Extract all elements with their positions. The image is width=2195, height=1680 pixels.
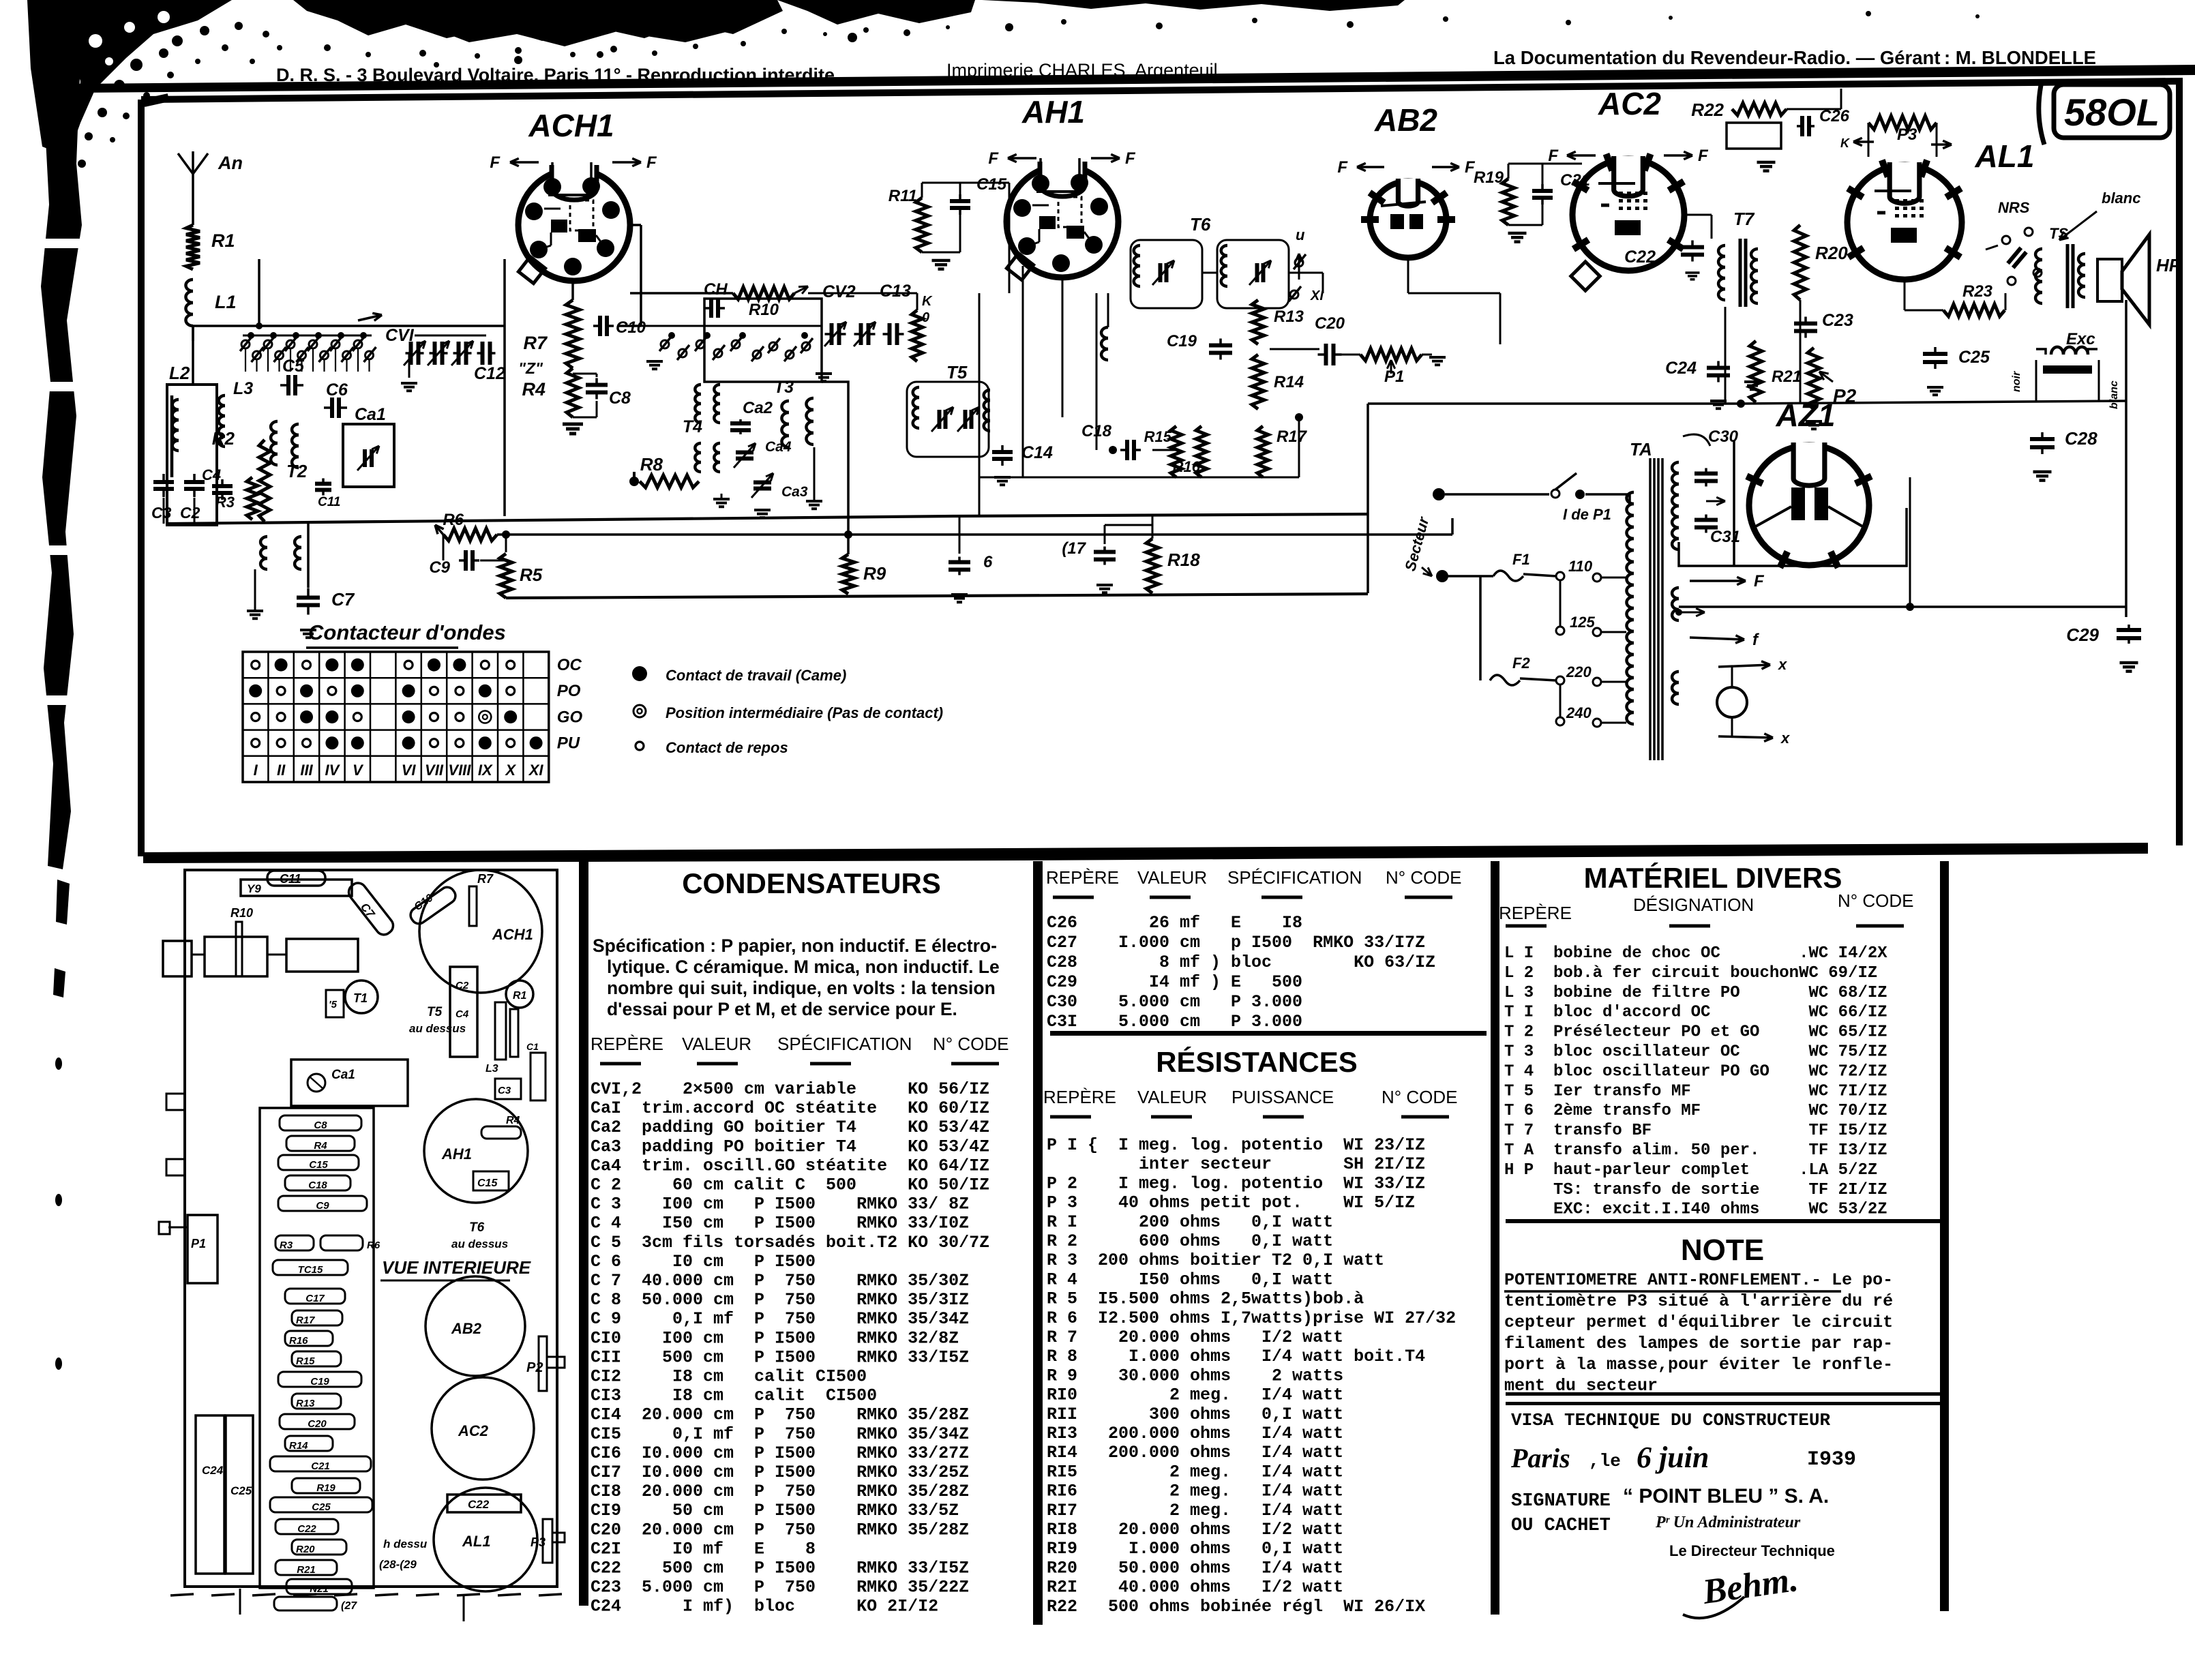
svg-text:I: I [254,762,258,779]
svg-text:T1: T1 [353,991,368,1005]
svg-text:C26 26 mf E I8: C26 26 mf E I8 [1047,913,1302,933]
svg-text:RÉSISTANCES: RÉSISTANCES [1156,1046,1358,1078]
svg-text:C28 8 mf ) bloc: C28 8 mf ) bloc KO 63/IZ [1047,952,1435,972]
capacitor C25 [1923,352,1947,356]
svg-text:SPÉCIFICATION: SPÉCIFICATION [777,1034,912,1054]
svg-text:P 3 40 ohms petit pot. W: P 3 40 ohms petit pot. WI 5/IZ [1047,1193,1415,1213]
transformer T3 coils [781,401,789,412]
small box (5 [326,990,344,1017]
svg-text:N° CODE: N° CODE [933,1034,1009,1054]
resistor R11 [916,198,928,252]
svg-text:XI: XI [528,762,544,779]
loudspeaker HP [2097,259,2122,301]
coil under AH1 [1101,327,1108,338]
svg-text:C 3 I00 cm P I500 RMKO: C 3 I00 cm P I500 RMKO 33/ 8Z [591,1195,969,1214]
svg-text:C24: C24 [1665,359,1697,378]
svg-text:R16: R16 [289,1335,308,1347]
capacitor C20 [1324,344,1328,365]
svg-text:R15: R15 [296,1355,315,1367]
svg-text:OU CACHET: OU CACHET [1511,1516,1611,1536]
svg-text:F: F [1754,572,1765,590]
svg-text:R21: R21 [1772,367,1802,386]
svg-text:RI9 I.000 ohms 0,I watt: RI9 I.000 ohms 0,I watt [1047,1539,1343,1559]
capacitor C13 [888,323,892,345]
svg-text:C28: C28 [2065,428,2097,449]
svg-text:C21: C21 [311,1460,330,1472]
tube ACH1 [518,169,630,281]
resistor R19 [1502,179,1514,225]
wave-change switch contacts left bank [241,340,250,348]
resistor R18 [1146,539,1159,593]
svg-text:VI: VI [402,762,417,779]
trimmer Ca1 box [291,1060,408,1106]
svg-text:Contact de repos: Contact de repos [666,739,788,756]
capacitor C29 [2117,628,2141,632]
svg-text:C22: C22 [1624,247,1656,267]
svg-text:C9: C9 [316,1200,329,1212]
svg-text:AC2: AC2 [458,1422,489,1439]
svg-text:au dessus: au dessus [451,1237,508,1250]
svg-text:R6: R6 [443,511,464,529]
svg-text:T7: T7 [1733,209,1755,229]
svg-text:110: 110 [1568,558,1593,575]
resistor R6 [443,528,497,541]
svg-text:An: An [218,153,243,173]
svg-text:R4: R4 [506,1115,520,1126]
transformer T2 coils [271,421,278,432]
ground under cluster [247,610,263,612]
svg-text:L I bobine de choc OC: L I bobine de choc OC .WC I4/2X [1504,944,1887,963]
pill C11 [267,871,325,886]
svg-text:Le Directeur Technique: Le Directeur Technique [1669,1542,1835,1559]
smudge texture holes [89,34,102,48]
svg-text:R 8 I.000 ohms I/4 watt: R 8 I.000 ohms I/4 watt boit.T4 [1047,1347,1425,1366]
svg-text:C2: C2 [180,504,200,522]
svg-text:T2: T2 [286,461,308,481]
svg-text:C 2 60 cm calit C 500: C 2 60 cm calit C 500 KO 50/IZ [591,1175,989,1195]
svg-text:R 2 600 ohms 0,I watt: R 2 600 ohms 0,I watt [1047,1231,1333,1251]
switch I de P1 [1445,493,1549,496]
capacitor C7 [297,596,320,600]
oscillator block outline [704,299,822,382]
svg-text:C22: C22 [297,1523,316,1535]
svg-text:C25: C25 [312,1501,331,1513]
svg-text:R14: R14 [289,1440,308,1452]
svg-text:R6: R6 [367,1240,380,1251]
capacitor C21 [1532,189,1553,193]
svg-text:T 2 Présélecteur PO et GO: T 2 Présélecteur PO et GO WC 65/IZ [1504,1023,1887,1042]
column divider 1 [579,861,588,1606]
wire AZ1 top bus [1368,402,1741,405]
resistor R5 [500,554,512,598]
svg-text:R4: R4 [314,1140,327,1152]
separator rule col2 [1050,1031,1487,1036]
svg-text:CI5 0,I mf P 750 RMKO: CI5 0,I mf P 750 RMKO 35/34Z [591,1424,969,1444]
resistor R20 [1794,225,1806,300]
svg-text:C3: C3 [498,1085,511,1096]
capacitor C15 [950,199,970,203]
coil L1 [185,280,193,291]
schematic frame [141,81,2179,856]
svg-text:R 9 30.000 ohms 2 watts: R 9 30.000 ohms 2 watts [1047,1366,1343,1385]
left tabs [166,1094,185,1110]
svg-text:TS: transfo de sortie TF 2: TS: transfo de sortie TF 2I/IZ [1504,1181,1887,1199]
bus wire cluster bottom [168,514,1368,524]
svg-text:CI9 50 cm P I500 RMKO: CI9 50 cm P I500 RMKO 33/5Z [591,1501,959,1520]
svg-text:P 2 I meg. log. potentio W: P 2 I meg. log. potentio WI 33/IZ [1047,1173,1425,1193]
capacitor C24 [1707,366,1730,370]
svg-text:d'essai pour P et M, et de ser: d'essai pour P et M, et de service pour … [607,999,957,1019]
svg-text:Ca1: Ca1 [331,1068,355,1082]
bottom rule of schematic [143,843,2148,863]
svg-text:F: F [646,153,657,172]
svg-text:REPÈRE: REPÈRE [1499,903,1572,923]
svg-text:CI6 I0.000 cm P I500 RMKO: CI6 I0.000 cm P I500 RMKO 33/27Z [591,1443,969,1463]
svg-text:R8: R8 [640,454,663,475]
capacitor C18 [1125,440,1129,460]
capacitor C17 [1094,550,1116,554]
svg-text:R20: R20 [1815,243,1848,263]
svg-text:ACH1: ACH1 [492,926,533,943]
svg-text:Ca4 trim. oscill.GO stéatite: Ca4 trim. oscill.GO stéatite KO 64/IZ [591,1156,989,1175]
capacitor C28 [2030,437,2055,441]
svg-text:Ca2 padding GO boitier T4: Ca2 padding GO boitier T4 KO 53/4Z [591,1117,989,1137]
svg-text:58OL: 58OL [2064,91,2160,134]
svg-text:AZ1: AZ1 [1776,397,1836,433]
svg-text:GO: GO [557,708,583,726]
gang capacitor block [163,941,192,976]
svg-text:AH1: AH1 [1021,94,1085,130]
svg-text:RI5 2 meg. I/4 watt: RI5 2 meg. I/4 watt [1047,1462,1343,1482]
svg-text:Y9: Y9 [247,882,261,895]
svg-text:R16: R16 [1173,458,1201,475]
svg-text:F: F [1698,147,1709,165]
svg-text:C14: C14 [1021,443,1053,462]
svg-text:SPÉCIFICATION: SPÉCIFICATION [1227,867,1362,888]
trimmer Ca4 [736,451,753,455]
svg-text:C 9 0,I mf P 750 RMKO: C 9 0,I mf P 750 RMKO 35/34Z [591,1309,969,1329]
top rule [78,65,2195,93]
contact grid [243,652,549,782]
pill C7 diagonal [346,880,397,937]
potentiometer P3 [1868,116,1937,130]
capacitor C5 [286,375,290,395]
svg-text:P1: P1 [191,1237,206,1250]
TA lamp secondary [1672,672,1679,682]
svg-text:C6: C6 [326,380,348,400]
svg-text:C24: C24 [202,1464,224,1477]
svg-text:blanc: blanc [2108,380,2120,409]
voltage taps [1556,572,1564,580]
svg-text:R14: R14 [1274,373,1304,391]
svg-text:PU: PU [557,734,580,753]
column divider 2 [1033,861,1043,1625]
svg-text:C7: C7 [331,589,355,610]
resistor R8 [640,475,699,487]
svg-text:R7: R7 [523,333,548,353]
svg-text:XI: XI [1310,288,1324,303]
capacitor C12 [481,342,485,365]
svg-text:au dessus: au dessus [409,1022,466,1035]
svg-text:L 3 bobine de filtre PO: L 3 bobine de filtre PO WC 68/IZ [1504,984,1887,1002]
wire top AVC bus [205,325,505,327]
svg-text:R 5 I5.500 ohms 2,5watts)bob.: R 5 I5.500 ohms 2,5watts)bob.à [1047,1289,1364,1309]
svg-text:V: V [353,762,364,779]
svg-text:240: 240 [1566,704,1592,721]
svg-text:TS: TS [2049,225,2068,242]
rule under materiel [1506,1219,1942,1223]
svg-text:TA: TA [1630,439,1652,460]
chassis component pills [280,1115,361,1130]
svg-text:R22 500 ohms bobinée régl W: R22 500 ohms bobinée régl WI 26/IX [1047,1597,1425,1617]
resistor R15 [1171,426,1182,477]
svg-text:T6: T6 [469,1220,485,1235]
svg-text:AL1: AL1 [1975,138,2035,174]
svg-text:P I { I meg. log. potentio W: P I { I meg. log. potentio WI 23/IZ [1047,1135,1425,1155]
capacitor C9 [464,550,468,571]
svg-text:F: F [490,153,501,172]
svg-text:blanc: blanc [2102,190,2140,207]
svg-text:Ca1: Ca1 [355,405,386,424]
svg-text:RI4 200.000 ohms I/4 watt: RI4 200.000 ohms I/4 watt [1047,1443,1343,1462]
svg-text:L 2 bob.à fer circuit bouchon: L 2 bob.à fer circuit bouchonWC 69/IZ [1504,964,1877,982]
svg-text:C25: C25 [1958,348,1990,367]
svg-text:CI4 20.000 cm P 750 RMKO: CI4 20.000 cm P 750 RMKO 35/28Z [591,1405,969,1425]
svg-text:C3I 5.000 cm P 3.000: C3I 5.000 cm P 3.000 [1047,1012,1302,1032]
svg-text:L1: L1 [215,292,237,312]
tube AZ1 [1749,445,1869,565]
svg-text:C29: C29 [2066,625,2099,645]
svg-text:AB2: AB2 [451,1320,482,1337]
wire antenna to bus [192,326,194,341]
resistor R16 [1196,426,1207,477]
svg-text:CI7 I0.000 cm P I500 RMKO: CI7 I0.000 cm P I500 RMKO 33/25Z [591,1462,969,1482]
svg-text:C19: C19 [310,1376,329,1387]
svg-text:R15: R15 [1144,428,1172,445]
tube AL1 [1847,165,1962,280]
svg-text:noir: noir [2011,371,2022,392]
svg-text:C 6 I0 cm P I500: C 6 I0 cm P I500 [591,1252,816,1272]
tube AH1 [1006,166,1118,277]
svg-text:K: K [1840,136,1851,150]
pill C22 over AL1 [447,1495,521,1512]
svg-text:L2: L2 [169,363,190,383]
svg-text:PUISSANCE: PUISSANCE [1231,1087,1334,1107]
svg-text:"Z": "Z" [518,359,543,377]
svg-text:R3: R3 [280,1240,293,1251]
svg-text:C1: C1 [526,1041,539,1052]
TA 4v secondary [1672,588,1679,599]
svg-text:C25: C25 [230,1484,252,1497]
tube AB2 chassis [425,1276,525,1376]
svg-text:POTENTIOMETRE ANTI-RONFLEMENT.: POTENTIOMETRE ANTI-RONFLEMENT.- Le po- [1504,1270,1893,1290]
svg-text:(17: (17 [1062,539,1086,558]
svg-text:C2: C2 [456,980,469,991]
capacitor C26 [1800,116,1804,136]
svg-text:C2I I0 mf E 8: C2I I0 mf E 8 [591,1539,816,1559]
svg-text:L3: L3 [486,1063,498,1075]
svg-text:R17: R17 [1276,427,1308,446]
svg-text:R10: R10 [230,906,253,920]
svg-text:C23: C23 [1822,311,1853,330]
svg-text:R9: R9 [863,563,886,584]
svg-text:N21: N21 [310,1583,329,1595]
svg-text:C24 I mf) bloc KO 2: C24 I mf) bloc KO 2I/I2 [591,1597,938,1617]
svg-text:VII: VII [425,762,444,779]
svg-text:T I bloc d'accord OC: T I bloc d'accord OC WC 66/IZ [1504,1004,1887,1022]
svg-text:F: F [1337,158,1348,177]
svg-text:P3: P3 [1897,125,1917,144]
tube AL1 chassis [434,1488,537,1591]
resistor R4 [567,368,579,417]
svg-text:C22: C22 [468,1498,490,1511]
switch contacts right bank [661,340,669,348]
capacitor C19 [1209,344,1232,348]
svg-text:R 6 I2.500 ohms I,7watts)pris: R 6 I2.500 ohms I,7watts)prise WI 27/32 [1047,1308,1456,1328]
svg-text:RII 300 ohms 0,I watt: RII 300 ohms 0,I watt [1047,1405,1343,1424]
svg-text:R4: R4 [522,379,546,400]
svg-text:,le: ,le [1589,1451,1621,1471]
svg-text:C23 5.000 cm P 750 RMKO: C23 5.000 cm P 750 RMKO 35/22Z [591,1578,969,1597]
svg-text:0: 0 [922,310,929,325]
svg-text:Paris: Paris [1510,1443,1570,1473]
capacitor CH [709,299,713,318]
svg-text:RI3 200.000 ohms I/4 watt: RI3 200.000 ohms I/4 watt [1047,1424,1343,1443]
svg-text:C11: C11 [318,495,340,509]
svg-text:'5: '5 [329,999,338,1010]
chassis bottom dashes [170,1594,194,1595]
svg-text:C27 I.000 cm p I500 RMKO: C27 I.000 cm p I500 RMKO 33/I7Z [1047,933,1425,952]
svg-text:AH1: AH1 [441,1145,472,1162]
svg-text:F: F [988,149,999,168]
svg-text:C8: C8 [609,389,631,408]
svg-text:h dessu: h dessu [383,1537,428,1550]
svg-text:(28-(29: (28-(29 [379,1558,417,1571]
capacitor C14 [992,450,1013,454]
svg-text:R19: R19 [316,1482,335,1494]
svg-text:REPÈRE: REPÈRE [1046,867,1119,888]
svg-text:Ca3: Ca3 [781,484,808,500]
potentiometer P2 [1808,348,1820,409]
tall caps C24 C25 [196,1415,224,1574]
resistor R23 [1943,304,2005,316]
svg-text:R 4 I50 ohms 0,I watt: R 4 I50 ohms 0,I watt [1047,1270,1333,1289]
svg-text:TC15: TC15 [298,1264,323,1276]
svg-text:C 5 3cm fils torsadés boit.T2: C 5 3cm fils torsadés boit.T2 KO 30/7Z [591,1233,989,1252]
L2 shielded coil box [167,385,217,525]
svg-text:R13: R13 [1274,307,1304,326]
svg-text:AB2: AB2 [1374,102,1437,138]
svg-text:T 6 2ème transfo MF: T 6 2ème transfo MF WC 70/IZ [1504,1102,1887,1120]
resistor R1 [186,225,200,269]
svg-text:Contacteur d'ondes: Contacteur d'ondes [308,620,506,644]
svg-text:6 juin: 6 juin [1637,1441,1709,1474]
svg-text:DÉSIGNATION: DÉSIGNATION [1633,895,1754,915]
svg-text:C15: C15 [976,175,1007,194]
svg-text:R23: R23 [1962,282,1993,301]
svg-text:F1: F1 [1512,551,1530,568]
svg-text:SIGNATURE: SIGNATURE [1511,1491,1611,1512]
scan smudge left edge streak [41,48,82,869]
svg-text:T3: T3 [774,378,794,397]
svg-text:tentiomètre P3 situé à l'arriè: tentiomètre P3 situé à l'arrière du ré [1504,1291,1893,1311]
svg-text:C20: C20 [1315,314,1345,333]
svg-text:RI8 20.000 ohms I/2 watt: RI8 20.000 ohms I/2 watt [1047,1520,1343,1540]
bus wire cathode [506,594,1368,598]
svg-text:R22: R22 [1691,100,1724,120]
wire tube left box [503,259,506,516]
tube AH1 chassis [424,1099,528,1203]
capacitor C8 [586,383,608,387]
svg-text:R17: R17 [296,1315,315,1326]
Secteur terminals [1433,488,1445,500]
legend contact travail [632,666,647,681]
capacitor C31 [1694,518,1718,522]
svg-text:R3: R3 [215,494,235,511]
node junction [256,322,263,329]
svg-text:I de P1: I de P1 [1563,506,1611,523]
svg-text:R 3 200 ohms boitier T2 0,I w: R 3 200 ohms boitier T2 0,I watt [1047,1250,1384,1270]
scan smudge top-left corner blob [27,0,232,157]
svg-text:CI8 20.000 cm P 750 RMKO: CI8 20.000 cm P 750 RMKO 35/28Z [591,1482,969,1501]
svg-text:R1: R1 [513,990,527,1002]
svg-text:C8: C8 [314,1120,327,1131]
resistor R3 [247,477,258,520]
svg-text:CV2: CV2 [822,282,856,301]
svg-text:C13: C13 [880,282,911,301]
svg-text:L3: L3 [233,379,253,398]
svg-text:125: 125 [1570,614,1595,631]
svg-text:CI0 I00 cm P I500 RMKO: CI0 I00 cm P I500 RMKO 32/8Z [591,1328,959,1348]
svg-text:x: x [1780,730,1790,747]
svg-text:C30 5.000 cm P 3.000: C30 5.000 cm P 3.000 [1047,992,1302,1012]
svg-text:R5: R5 [520,565,543,585]
TA HT secondary [1672,462,1679,473]
svg-text:R 7 20.000 ohms I/2 watt: R 7 20.000 ohms I/2 watt [1047,1327,1343,1347]
svg-text:F: F [1548,147,1559,165]
svg-text:C 7 40.000 cm P 750 RMKO: C 7 40.000 cm P 750 RMKO 35/30Z [591,1271,969,1291]
resistor R17 [1257,426,1268,477]
svg-text:C22 500 cm P I500 RMKO: C22 500 cm P I500 RMKO 33/I5Z [591,1559,969,1578]
svg-text:6: 6 [983,553,993,571]
svg-text:Position intermédiaire (Pas d: Position intermédiaire (Pas de contact) [666,704,943,721]
svg-text:R10: R10 [749,301,779,319]
svg-text:I939: I939 [1807,1448,1856,1471]
svg-text:NRS: NRS [1998,199,2030,216]
svg-text:R20 50.000 ohms I/4 watt: R20 50.000 ohms I/4 watt [1047,1558,1343,1578]
capacitor C23 [1794,322,1817,326]
svg-text:CII 500 cm P I500 RMKO: CII 500 cm P I500 RMKO 33/I5Z [591,1347,969,1367]
tube AB2 [1370,181,1446,258]
chassis outline [185,870,557,1587]
column divider 3 [1491,861,1499,1615]
svg-text:HP: HP [2156,255,2181,275]
resistor R2 [259,440,270,522]
svg-text:C3: C3 [151,504,172,522]
svg-text:VALEUR: VALEUR [1137,867,1207,888]
svg-text:R19: R19 [1474,168,1504,187]
svg-text:R21: R21 [297,1564,316,1576]
trimmer Ca1 box [343,424,394,487]
capacitor C11 [315,482,331,486]
bus wire AVC2 [497,533,1452,536]
svg-text:T 5 Ier transfo MF: T 5 Ier transfo MF WC 7I/IZ [1504,1082,1887,1100]
svg-text:MATÉRIEL DIVERS: MATÉRIEL DIVERS [1584,862,1842,894]
svg-text:ACH1: ACH1 [528,108,614,143]
scan smudge top band [293,0,783,41]
svg-text:IX: IX [478,762,493,779]
legend position intermediaire [633,705,646,717]
